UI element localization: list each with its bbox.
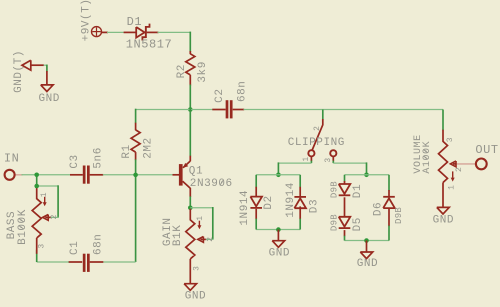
svg-text:2: 2 bbox=[313, 126, 322, 131]
svg-text:3k9: 3k9 bbox=[197, 61, 209, 82]
svg-text:D9B: D9B bbox=[330, 214, 340, 231]
svg-text:C1: C1 bbox=[69, 241, 81, 255]
svg-text:D3: D3 bbox=[308, 199, 320, 213]
svg-text:B1K: B1K bbox=[172, 225, 184, 246]
svg-text:1N5817: 1N5817 bbox=[126, 38, 173, 52]
svg-text:68n: 68n bbox=[237, 81, 249, 102]
svg-text:GND: GND bbox=[357, 258, 378, 270]
svg-text:D2: D2 bbox=[263, 195, 275, 209]
svg-text:1: 1 bbox=[447, 185, 456, 190]
svg-text:1N914: 1N914 bbox=[239, 190, 251, 226]
svg-text:GND(T): GND(T) bbox=[13, 50, 25, 93]
svg-text:R1: R1 bbox=[121, 144, 133, 158]
svg-text:GND: GND bbox=[269, 248, 290, 260]
svg-text:1: 1 bbox=[302, 156, 311, 161]
svg-text:2: 2 bbox=[455, 167, 464, 172]
svg-text:R2: R2 bbox=[176, 64, 188, 78]
svg-text:CLIPPING: CLIPPING bbox=[288, 137, 345, 149]
svg-text:Q1: Q1 bbox=[189, 165, 203, 177]
svg-text:1: 1 bbox=[40, 192, 49, 197]
svg-text:3: 3 bbox=[446, 137, 455, 142]
svg-text:2M2: 2M2 bbox=[142, 137, 154, 158]
svg-text:GND: GND bbox=[433, 215, 454, 227]
svg-text:C2: C2 bbox=[214, 88, 226, 102]
svg-text:1: 1 bbox=[196, 216, 205, 221]
svg-text:+9V(T): +9V(T) bbox=[81, 0, 93, 41]
svg-text:D1: D1 bbox=[127, 15, 143, 29]
svg-text:3: 3 bbox=[193, 266, 202, 271]
svg-text:D9B: D9B bbox=[330, 181, 340, 198]
svg-text:2: 2 bbox=[206, 237, 215, 242]
svg-text:IN: IN bbox=[4, 151, 20, 165]
svg-text:D5: D5 bbox=[352, 217, 364, 231]
svg-text:3: 3 bbox=[324, 157, 333, 162]
svg-text:D1: D1 bbox=[352, 184, 364, 198]
svg-text:B100K: B100K bbox=[17, 209, 29, 245]
svg-text:OUT: OUT bbox=[475, 143, 498, 157]
svg-text:A100K: A100K bbox=[422, 141, 433, 174]
svg-text:D9B: D9B bbox=[394, 207, 404, 224]
svg-text:C3: C3 bbox=[69, 154, 81, 168]
svg-text:2N3906: 2N3906 bbox=[190, 178, 233, 190]
svg-text:GND: GND bbox=[185, 291, 206, 303]
svg-text:5n6: 5n6 bbox=[92, 147, 104, 168]
svg-text:2: 2 bbox=[50, 214, 59, 219]
svg-text:GND: GND bbox=[39, 93, 60, 105]
svg-text:68n: 68n bbox=[92, 234, 104, 255]
svg-text:3: 3 bbox=[37, 243, 46, 248]
svg-text:1N914: 1N914 bbox=[285, 182, 297, 218]
svg-text:D6: D6 bbox=[372, 202, 384, 216]
